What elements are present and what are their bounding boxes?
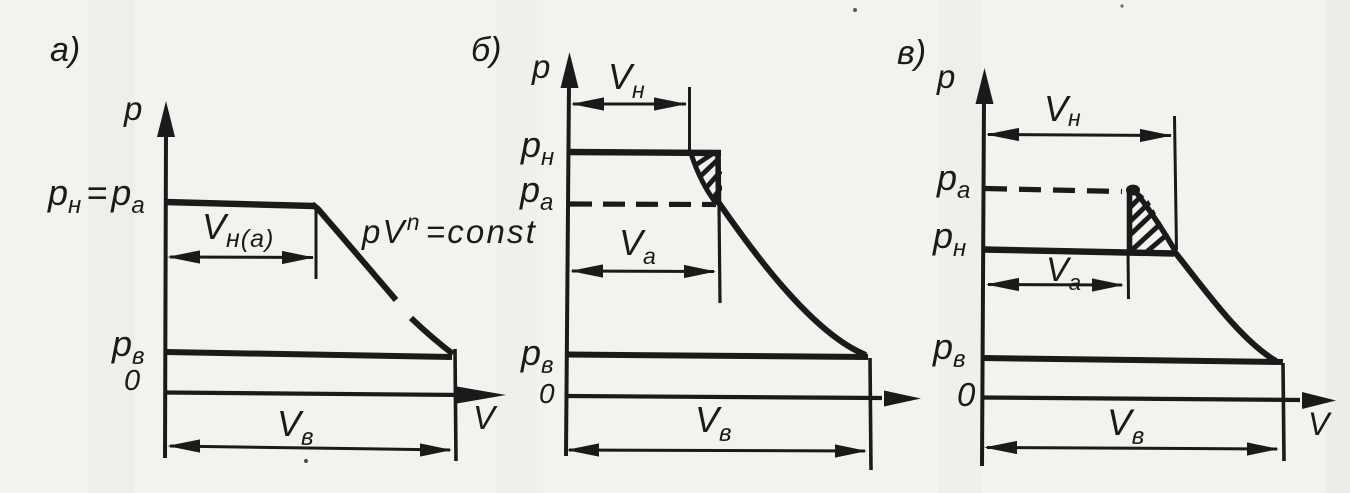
p_в line (panel a) — [165, 352, 452, 357]
faint scan streaks — [88, 0, 134, 493]
x-axis arrowhead (panel в) — [1302, 392, 1336, 409]
constant-volume right edge (panel б) — [715, 151, 721, 204]
x-axis (panel б) — [567, 396, 882, 398]
hatched lost-work area (panel б) — [696, 153, 722, 203]
dimension arrow V_н (panel б) — [573, 103, 686, 106]
y-axis (panel б) — [566, 84, 569, 456]
p_в line (panel б) — [567, 355, 868, 358]
p_н line (panel б) — [568, 152, 721, 153]
y-axis (panel a) — [165, 132, 166, 458]
x-axis (panel в) — [981, 398, 1300, 401]
svg-text:p: p — [936, 58, 955, 95]
polytrope curve (panel в) — [1174, 251, 1276, 361]
svg-text:V: V — [473, 399, 498, 436]
scan speck top right — [1120, 4, 1123, 7]
svg-text:pVn=const: pVn=const — [361, 209, 537, 250]
svg-text:p: p — [123, 90, 142, 127]
svg-text:0: 0 — [957, 376, 976, 413]
dimension extension line at V_н(а) (panel a) — [315, 210, 318, 279]
svg-text:V: V — [1308, 406, 1332, 442]
dimension extension line V_а right (panel б) — [719, 204, 720, 303]
scan speck bottom (panel a) — [304, 459, 308, 463]
expansion arc bounding hatch (panel б) — [692, 155, 718, 205]
svg-text:0: 0 — [539, 378, 555, 409]
dimension arrow V_а (panel б) — [572, 270, 714, 274]
svg-text:0: 0 — [124, 365, 140, 397]
dimension arrow V_а (panel в) — [988, 283, 1122, 287]
svg-text:p: p — [531, 48, 550, 85]
expansion arc bounding hatch (panel в) — [1137, 194, 1175, 251]
dimension arrow V_н(а) (panel a) — [170, 256, 313, 260]
x-axis arrowhead (panel б) — [884, 391, 921, 407]
dashed p_а line (panel в) — [985, 189, 1122, 192]
right extension line (panel a) — [455, 349, 456, 461]
svg-text:pн=pа: pн=pа — [47, 172, 145, 219]
constant-volume spike edge (panel в) — [1127, 191, 1133, 250]
hatched lost-work area (panel в) — [1130, 195, 1177, 252]
y-axis arrowhead (panel в) — [976, 68, 994, 104]
dimension arrow V_в (panel a) — [170, 446, 450, 450]
svg-text:б): б) — [471, 31, 501, 69]
polytrope curve upper segment (panel a) — [312, 204, 396, 300]
point at spike top (panel в) — [1126, 185, 1140, 196]
y-axis arrowhead (panel б) — [561, 52, 579, 88]
polytrope curve lower segment after gap (panel a) — [411, 318, 453, 354]
polytrope curve (panel б) — [719, 203, 866, 355]
dimension arrow V_в (panel б) — [569, 450, 865, 451]
dimension arrow V_в (panel в) — [987, 448, 1277, 450]
y-axis arrowhead (panel a) — [157, 101, 175, 137]
p_в line (panel в) — [981, 358, 1283, 362]
right extension line (panel б) — [870, 358, 871, 470]
dimension extension line V_н (panel б) — [688, 87, 691, 152]
y-axis (panel в) — [982, 100, 984, 466]
right extension line (panel в) — [1283, 363, 1284, 461]
dimension extension line V_а (panel в) — [1127, 251, 1131, 299]
svg-text:а): а) — [50, 31, 80, 69]
dimension extension line V_н (panel в) — [1175, 116, 1177, 250]
scan speck top middle — [853, 8, 857, 12]
p_н line (panel a) — [165, 202, 314, 206]
p_н line (panel в) — [984, 250, 1174, 254]
svg-text:в): в) — [897, 34, 926, 72]
dimension arrow V_н (panel в) — [988, 135, 1171, 136]
dashed p_а line (panel б) — [570, 201, 716, 207]
x-axis arrowhead (panel a) — [457, 387, 506, 404]
x-axis (panel a) — [165, 393, 464, 396]
